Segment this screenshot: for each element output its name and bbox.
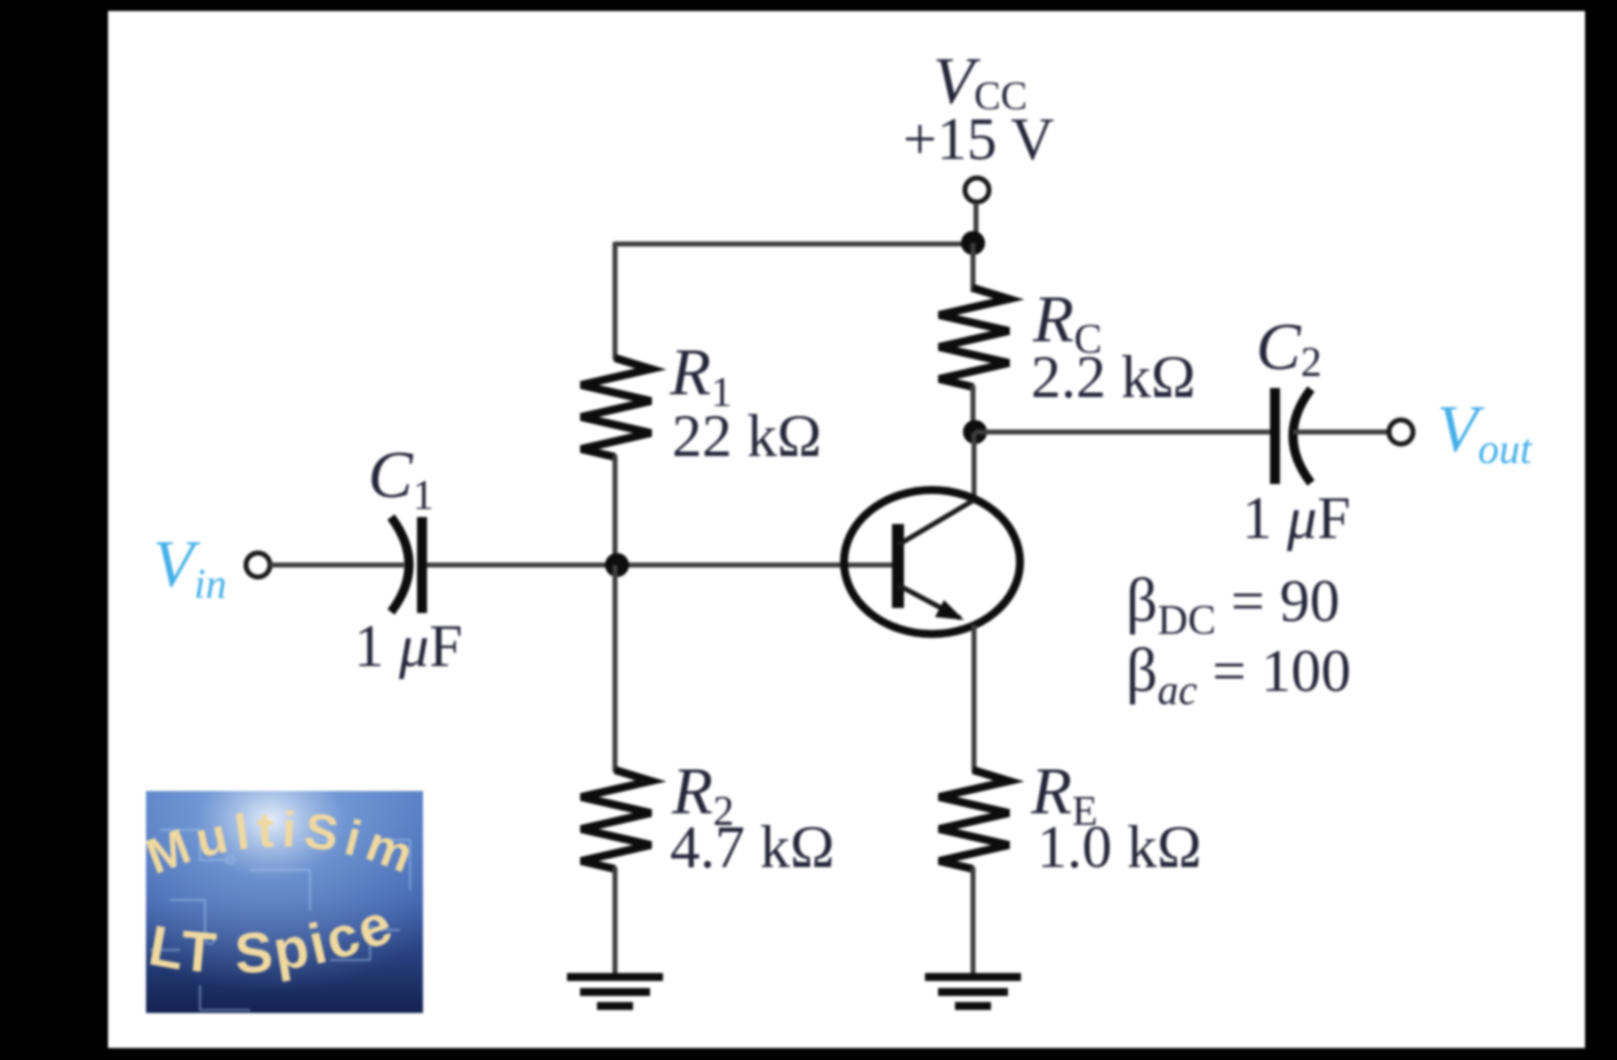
capacitor C2 right curved plate [1293,389,1311,483]
resistor R2 [581,770,651,869]
svg-text:1 μF: 1 μF [1242,485,1351,551]
terminal Vout open circle [1389,420,1413,444]
power terminal VCC open circle [965,178,989,202]
terminal Vin open circle [246,553,270,577]
wire: emitter down to RE [972,625,977,772]
wire: RC bottom to collector node [971,385,976,432]
svg-text:2.2 kΩ: 2.2 kΩ [1031,344,1196,410]
wire: left rail top down to R1 [613,242,618,360]
resistor RC [939,288,1009,387]
wire: RE to ground [971,867,976,976]
wire: R2 to ground [613,867,618,976]
MultiSim LT Spice logo [139,791,427,1013]
wire: top rail from R1 top to VCC node [615,242,973,247]
svg-text:4.7 kΩ: 4.7 kΩ [670,814,835,880]
resistor RE [939,770,1009,869]
transistor Q1 emitter lead [898,585,960,618]
capacitor C1 curved left plate [391,517,409,612]
wire: C2 to Vout terminal [1293,430,1389,435]
node: collector junction dot [963,420,987,444]
ground symbol at RE [925,977,1021,1006]
wire: VCC node down to RC [971,243,976,292]
capacitor C1 right plate [417,517,427,613]
node: VCC junction dot [961,231,985,255]
wire: base node down to R2 [613,565,618,772]
wire: collector node to C2 [975,430,1271,435]
capacitor C2 left plate [1270,388,1280,484]
resistor R1 [581,358,651,457]
node: base junction dot [605,553,629,577]
transistor Q1 emitter arrowhead [935,600,964,620]
wire: R1 bottom to base node [613,455,618,565]
wire: Vin to C1 [270,563,404,568]
transistor Q1 body circle [844,490,1020,634]
svg-text:22 kΩ: 22 kΩ [672,403,822,469]
wire: collector vertical into transistor [972,432,977,502]
transistor Q1 collector lead [898,500,974,545]
wire: C1 to transistor base [427,563,897,568]
transistor Q1 base bar [892,524,904,608]
wire: VCC terminal stub [974,203,979,244]
svg-text:1.0 kΩ: 1.0 kΩ [1037,814,1202,880]
ground symbol at R2 [567,977,663,1006]
svg-text:1 μF: 1 μF [354,613,463,679]
svg-text:+15 V: +15 V [903,106,1054,172]
